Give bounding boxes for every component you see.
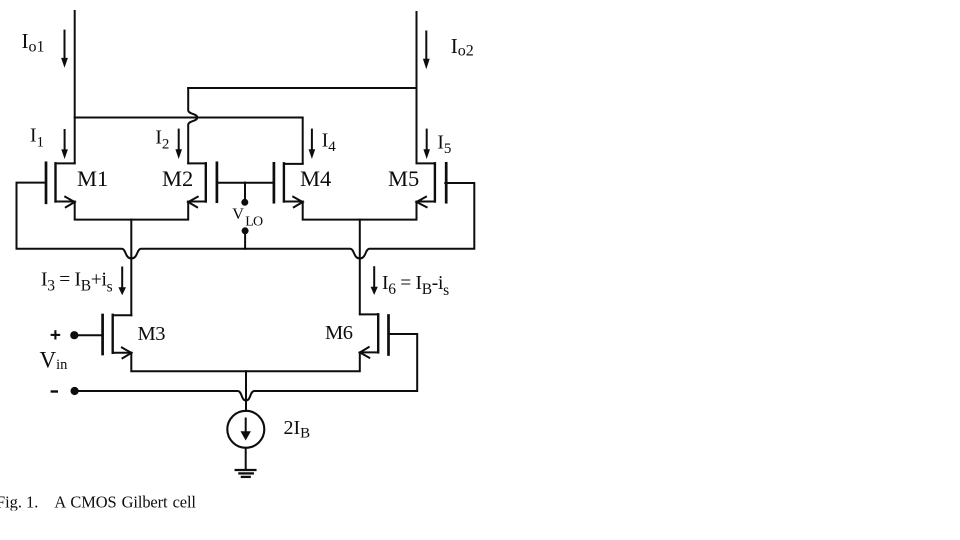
label 2IB [284, 417, 311, 442]
wire: left tail, M1/M2 sources down to M3 drain [130, 220, 132, 316]
node: VLO top terminal [241, 199, 248, 206]
wire: M2 drain vertical with hop over net B [188, 88, 197, 163]
label I2 [155, 128, 169, 153]
current arrow I4 [309, 130, 316, 159]
current source 2IB [227, 411, 264, 448]
svg-text:V: V [232, 205, 244, 223]
ground [236, 470, 256, 477]
svg-text:M3: M3 [138, 323, 166, 345]
wire: current source to ground [245, 448, 247, 470]
transistor M6 [360, 314, 389, 358]
node: Vin+ terminal [70, 331, 78, 339]
label Io1 [22, 29, 45, 55]
transistor M5 [417, 163, 447, 207]
label Io2 [451, 34, 474, 60]
wire: M4/M5 source join [303, 202, 417, 220]
svg-text:Fig. 1.: Fig. 1. [0, 493, 38, 512]
wire: LO upper net, M2 gate to M4 gate [217, 182, 274, 184]
label I6 = IB-is [382, 273, 449, 299]
svg-text:M1: M1 [77, 166, 108, 191]
label I4 [322, 130, 337, 155]
svg-text:I1: I1 [30, 126, 44, 151]
svg-text:Io2: Io2 [451, 34, 474, 60]
transistor M4 [274, 163, 303, 207]
svg-text:Vin: Vin [40, 347, 69, 373]
label Vin minus [51, 390, 58, 392]
wire: M1/M2 source join [75, 202, 189, 220]
current arrow I6 [371, 267, 378, 295]
label M3 [138, 323, 166, 345]
transistor M3 [103, 315, 132, 358]
svg-text:I4: I4 [322, 130, 337, 155]
current arrow I2 [175, 130, 182, 159]
label M1 [77, 166, 108, 191]
node: VLO bottom terminal [242, 227, 249, 234]
transistor M1 [46, 163, 75, 207]
svg-text:2IB: 2IB [284, 417, 311, 442]
wire: Io1 output branch (top to M1 drain) [74, 11, 76, 163]
wire: right tail, M4/M5 sources down to M6 drain [359, 220, 361, 315]
label M5 [388, 166, 419, 191]
label VLO [232, 205, 263, 230]
svg-text:I5: I5 [437, 132, 451, 157]
current arrow I5 [423, 130, 430, 159]
label I5 [437, 132, 451, 157]
wire: Vin+ lead to M3 gate [74, 334, 102, 336]
wire: net A, M2 drain to Io2 branch [188, 87, 416, 89]
svg-text:I6 = IB-is: I6 = IB-is [382, 273, 449, 299]
transistor M2 [188, 163, 217, 207]
current arrow I3 [118, 268, 126, 296]
svg-text:A CMOS Gilbert cell: A CMOS Gilbert cell [54, 493, 196, 512]
label I3 = IB+is [41, 270, 113, 296]
svg-text:I3 = IB+is: I3 = IB+is [41, 270, 113, 296]
svg-text:I2: I2 [155, 128, 169, 153]
label M6 [325, 322, 353, 344]
svg-text:M6: M6 [325, 322, 353, 344]
svg-text:M2: M2 [162, 166, 193, 191]
wire: VLO top stub [244, 183, 246, 200]
label Vin [40, 347, 69, 373]
label I1 [30, 126, 44, 151]
label Vin plus [51, 330, 61, 339]
node: Vin- terminal [71, 387, 79, 395]
wire: VLO bottom stub [244, 231, 246, 249]
label M2 [162, 166, 193, 191]
wire: net B, M1 drain to M4 drain [75, 118, 303, 164]
current arrow Io2 [423, 32, 430, 70]
svg-text:LO: LO [245, 215, 263, 230]
svg-text:Io1: Io1 [22, 29, 45, 55]
svg-text:M4: M4 [300, 166, 331, 191]
wire: tail to current source [245, 371, 247, 411]
current arrow I1 [61, 130, 68, 159]
label M4 [300, 166, 331, 191]
wire: M3/M6 source join [131, 353, 359, 372]
wire: Io2 output branch (top to M5 drain) [416, 12, 418, 163]
wire: LO lower net, M1 gate to M5 gate with dips under tails [17, 183, 475, 259]
current arrow Io1 [61, 31, 68, 68]
wire: Vin- lead to M6 gate with dip under tail [75, 334, 418, 400]
caption Fig. 1 [0, 493, 196, 512]
svg-text:M5: M5 [388, 166, 419, 191]
